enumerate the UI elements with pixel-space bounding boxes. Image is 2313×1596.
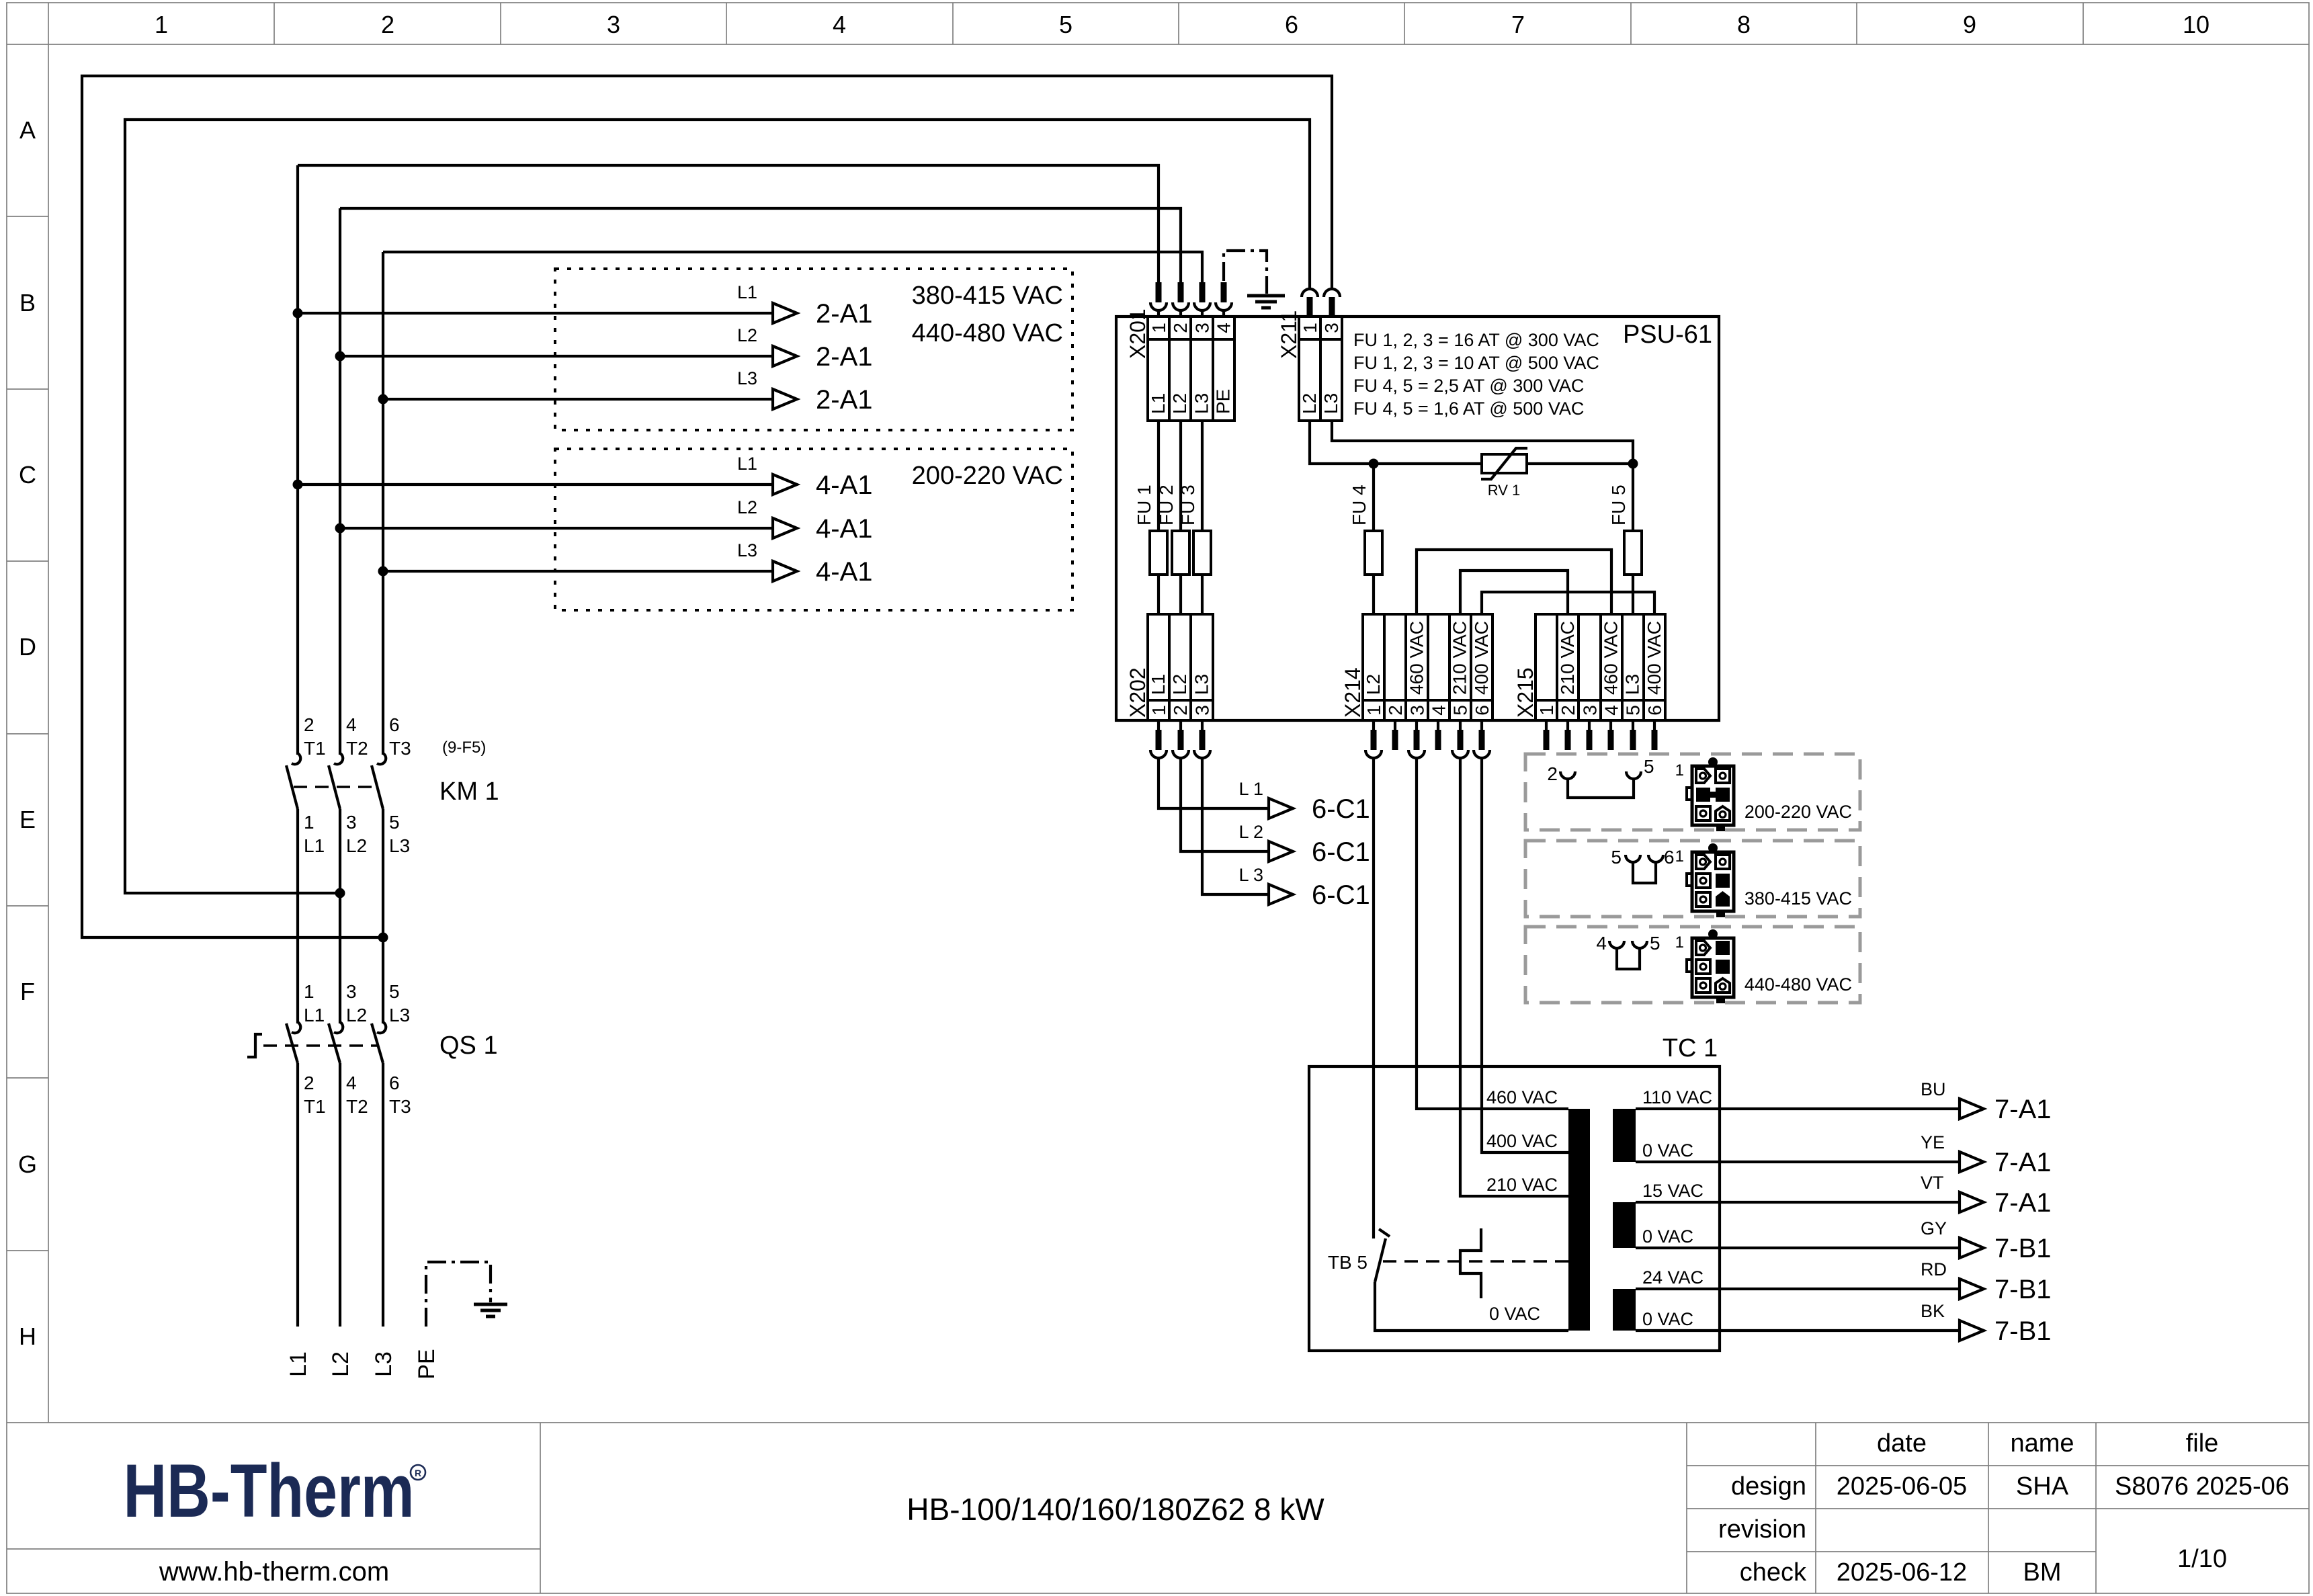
svg-text:L3: L3 bbox=[1191, 674, 1212, 695]
svg-text:460 VAC: 460 VAC bbox=[1486, 1087, 1558, 1107]
svg-text:1: 1 bbox=[1148, 323, 1169, 333]
dotted box 380-415/440-480 VAC bbox=[555, 269, 1073, 430]
disconnect switch QS1 bbox=[247, 1022, 386, 1063]
link arrow 4-A1 (L1) bbox=[773, 474, 797, 495]
ground (bottom PE) bbox=[474, 1304, 507, 1316]
svg-text:X201: X201 bbox=[1126, 308, 1150, 359]
pin into X201 at x=1724 bbox=[1156, 282, 1162, 302]
pin below X215 at x=2333 bbox=[1566, 720, 1569, 730]
wire X201 to X202 (FU 1) bbox=[1157, 421, 1160, 614]
connector X202 bbox=[1148, 614, 1213, 720]
svg-text:2: 2 bbox=[381, 11, 394, 38]
svg-text:200-220 VAC: 200-220 VAC bbox=[1744, 802, 1852, 822]
QS1 labels bbox=[304, 981, 411, 1117]
svg-text:T1: T1 bbox=[304, 1096, 326, 1117]
svg-text:1: 1 bbox=[1148, 705, 1169, 716]
svg-text:(9-F5): (9-F5) bbox=[442, 739, 486, 757]
svg-text:L1: L1 bbox=[304, 1005, 325, 1025]
wire L1 rail bbox=[296, 165, 299, 1327]
title table texts bbox=[1718, 1429, 2289, 1587]
svg-text:BU: BU bbox=[1921, 1079, 1946, 1099]
svg-text:T3: T3 bbox=[389, 1096, 411, 1117]
svg-text:2: 2 bbox=[1385, 705, 1406, 716]
fuse FU5 bbox=[1632, 464, 1634, 614]
svg-text:VT: VT bbox=[1921, 1173, 1944, 1193]
wire L3 rail bbox=[382, 252, 384, 1327]
svg-text:6: 6 bbox=[1285, 11, 1298, 38]
wire L3 tap to 4-A1 bbox=[383, 570, 773, 573]
wire 460 VAC bus X214-3 to X215-4 bbox=[1417, 550, 1611, 614]
svg-text:3: 3 bbox=[607, 11, 620, 38]
connector X211 bbox=[1299, 317, 1342, 421]
svg-text:L 1: L 1 bbox=[1238, 779, 1263, 799]
wire L1 loop to X201-1 bbox=[298, 165, 1159, 282]
svg-text:X215: X215 bbox=[1513, 667, 1538, 718]
svg-text:6-C1: 6-C1 bbox=[1312, 794, 1370, 824]
HB-Therm logo bbox=[123, 1450, 425, 1534]
node FU5 junction bbox=[1628, 459, 1638, 469]
svg-text:380-415 VAC: 380-415 VAC bbox=[1744, 888, 1852, 909]
svg-text:7-B1: 7-B1 bbox=[1994, 1316, 2052, 1346]
svg-text:2025-06-05: 2025-06-05 bbox=[1837, 1472, 1967, 1501]
svg-text:5: 5 bbox=[1450, 705, 1471, 716]
wire 210 VAC bus X214-5 to X215-2 bbox=[1460, 571, 1568, 614]
fuse FU 3 bbox=[1193, 531, 1211, 575]
svg-text:2-A1: 2-A1 bbox=[816, 342, 873, 372]
svg-text:1: 1 bbox=[1536, 705, 1557, 716]
node L3 junction bbox=[378, 566, 388, 577]
wire X202 to 6-C1 (L 3) bbox=[1202, 758, 1269, 894]
svg-text:X214: X214 bbox=[1341, 667, 1365, 718]
pin below X215 at x=2397 bbox=[1609, 720, 1612, 730]
svg-text:FU 4, 5 = 1,6 AT @ 500 VAC: FU 4, 5 = 1,6 AT @ 500 VAC bbox=[1353, 398, 1584, 419]
wire L1 tap to 2-A1 bbox=[298, 312, 773, 314]
node L1 junction bbox=[293, 480, 303, 490]
svg-text:file: file bbox=[2186, 1429, 2219, 1458]
svg-text:TC 1: TC 1 bbox=[1663, 1034, 1718, 1062]
svg-text:6: 6 bbox=[1644, 705, 1665, 716]
svg-text:460 VAC: 460 VAC bbox=[1601, 621, 1622, 695]
contactor KM1 bbox=[286, 753, 386, 809]
wire L2 from X211-1 to FU4 node bbox=[1310, 421, 1374, 464]
svg-text:SHA: SHA bbox=[2016, 1472, 2069, 1501]
svg-text:2-A1: 2-A1 bbox=[816, 299, 873, 329]
row letters A-H bbox=[18, 116, 37, 1350]
svg-text:HB-100/140/160/180Z62 8 kW: HB-100/140/160/180Z62 8 kW bbox=[907, 1492, 1324, 1527]
svg-text:7-A1: 7-A1 bbox=[1994, 1188, 2052, 1218]
svg-text:2: 2 bbox=[304, 714, 314, 735]
jumper 2-5 (200-220 VAC) bbox=[1547, 756, 1654, 798]
link arrow 7-B1 (BK) bbox=[1960, 1320, 1984, 1341]
svg-text:L3: L3 bbox=[737, 540, 757, 560]
svg-text:15 VAC: 15 VAC bbox=[1642, 1181, 1704, 1201]
connector X215 bbox=[1536, 614, 1665, 720]
pin/socket below X202 at x=1789 bbox=[1201, 720, 1204, 730]
svg-text:4-A1: 4-A1 bbox=[816, 557, 873, 587]
svg-text:www.hb-therm.com: www.hb-therm.com bbox=[159, 1557, 389, 1587]
svg-text:PE: PE bbox=[1213, 389, 1234, 414]
wire RD to 7-B1 bbox=[1636, 1288, 1960, 1290]
svg-text:2: 2 bbox=[1558, 705, 1579, 716]
svg-text:1: 1 bbox=[304, 812, 314, 833]
svg-text:R: R bbox=[415, 1468, 421, 1478]
pin below X214 at x=2140 bbox=[1437, 720, 1439, 730]
option box 200-220 VAC bbox=[1525, 754, 1860, 830]
svg-text:L3: L3 bbox=[1320, 393, 1341, 414]
svg-text:B: B bbox=[19, 289, 36, 317]
svg-text:E: E bbox=[19, 806, 36, 833]
fuse FU4 bbox=[1372, 464, 1375, 614]
link arrow 2-A1 (L3) bbox=[773, 389, 797, 409]
svg-text:3: 3 bbox=[1579, 705, 1600, 716]
PSU-61 power supply unit bbox=[1116, 317, 1719, 720]
svg-text:X211: X211 bbox=[1277, 310, 1301, 359]
pin below X215 at x=2430 bbox=[1632, 720, 1634, 730]
node L1 junction bbox=[293, 308, 303, 319]
svg-text:8: 8 bbox=[1737, 11, 1751, 38]
svg-text:FU 3: FU 3 bbox=[1177, 485, 1198, 526]
svg-text:2: 2 bbox=[1547, 763, 1558, 784]
column numbers 1-10 bbox=[155, 11, 2210, 38]
svg-text:4-A1: 4-A1 bbox=[816, 514, 873, 544]
wire RV1 link bbox=[1374, 462, 1633, 465]
svg-text:PE: PE bbox=[414, 1349, 439, 1379]
svg-text:110 VAC: 110 VAC bbox=[1642, 1087, 1712, 1107]
svg-text:RD: RD bbox=[1921, 1259, 1947, 1279]
svg-text:L1: L1 bbox=[1148, 393, 1169, 414]
svg-text:date: date bbox=[1877, 1429, 1927, 1458]
svg-text:7-B1: 7-B1 bbox=[1994, 1275, 2052, 1304]
link arrow 7-B1 (GY) bbox=[1960, 1238, 1984, 1258]
svg-text:3: 3 bbox=[346, 981, 357, 1002]
svg-text:3: 3 bbox=[1321, 323, 1342, 333]
svg-text:FU 1, 2, 3 = 16 AT @ 300 VAC: FU 1, 2, 3 = 16 AT @ 300 VAC bbox=[1353, 330, 1599, 350]
pin below X214 at x=2044 bbox=[1372, 720, 1375, 730]
svg-text:L2: L2 bbox=[328, 1351, 353, 1377]
svg-text:FU 1, 2, 3 = 10 AT @ 500 VAC: FU 1, 2, 3 = 10 AT @ 500 VAC bbox=[1353, 353, 1599, 373]
svg-text:BM: BM bbox=[2023, 1558, 2062, 1587]
node L3 tap junction (QS side) bbox=[378, 933, 388, 943]
svg-text:6: 6 bbox=[1664, 847, 1675, 868]
connector X201 bbox=[1148, 317, 1234, 421]
svg-text:3: 3 bbox=[1406, 705, 1427, 716]
wire BU to 7-A1 bbox=[1636, 1107, 1960, 1110]
wire L2 rail bbox=[339, 208, 341, 1327]
svg-text:2-A1: 2-A1 bbox=[816, 385, 873, 415]
wire BK to 7-B1 bbox=[1636, 1329, 1960, 1332]
link arrow 7-A1 (BU) bbox=[1960, 1099, 1984, 1119]
ground (PSU PE) bbox=[1247, 296, 1285, 308]
thermal contact TB5 bbox=[1328, 1066, 1568, 1331]
svg-text:6: 6 bbox=[389, 1073, 400, 1093]
svg-text:200-220 VAC: 200-220 VAC bbox=[912, 462, 1063, 490]
svg-text:0 VAC: 0 VAC bbox=[1642, 1309, 1693, 1329]
link arrow 7-A1 (YE) bbox=[1960, 1152, 1984, 1172]
svg-text:L3: L3 bbox=[737, 368, 757, 388]
svg-text:2: 2 bbox=[1170, 705, 1191, 716]
svg-text:X202: X202 bbox=[1126, 667, 1150, 718]
node L2 tap junction (QS side) bbox=[335, 888, 345, 898]
svg-text:7-A1: 7-A1 bbox=[1994, 1095, 2052, 1124]
link arrow 4-A1 (L3) bbox=[773, 561, 797, 581]
wire VT to 7-A1 bbox=[1636, 1201, 1960, 1204]
wire L2 tap to 2-A1 bbox=[340, 355, 773, 358]
svg-text:L3: L3 bbox=[389, 835, 410, 856]
svg-text:TB 5: TB 5 bbox=[1328, 1252, 1368, 1273]
svg-text:H: H bbox=[19, 1322, 36, 1350]
svg-text:6: 6 bbox=[389, 714, 400, 735]
fuse rating table bbox=[1353, 330, 1599, 419]
link arrow 6-C1 (L 3) bbox=[1269, 884, 1293, 905]
svg-text:1: 1 bbox=[1675, 933, 1684, 952]
pin below X214 at x=2076 bbox=[1394, 720, 1396, 730]
svg-text:KM 1: KM 1 bbox=[439, 778, 499, 806]
svg-text:2: 2 bbox=[304, 1073, 314, 1093]
svg-text:L3: L3 bbox=[389, 1005, 410, 1025]
svg-text:5: 5 bbox=[389, 812, 400, 833]
fuse FU 2 bbox=[1172, 531, 1189, 575]
svg-text:RV 1: RV 1 bbox=[1488, 482, 1521, 499]
svg-text:design: design bbox=[1731, 1472, 1806, 1501]
svg-text:3: 3 bbox=[346, 812, 357, 833]
svg-text:210 VAC: 210 VAC bbox=[1557, 621, 1578, 695]
svg-text:D: D bbox=[19, 633, 36, 661]
link arrow 2-A1 (L2) bbox=[773, 346, 797, 366]
svg-text:4: 4 bbox=[833, 11, 846, 38]
TC1 secondary tap labels bbox=[1642, 1087, 1712, 1329]
svg-text:T1: T1 bbox=[304, 738, 326, 759]
svg-text:BK: BK bbox=[1921, 1301, 1945, 1321]
svg-text:L2: L2 bbox=[1169, 674, 1190, 695]
svg-text:L2: L2 bbox=[1299, 393, 1320, 414]
svg-text:1: 1 bbox=[155, 11, 168, 38]
svg-text:FU 4: FU 4 bbox=[1349, 485, 1370, 526]
wire 210 VAC X214-5 to TC1 bbox=[1460, 758, 1568, 1196]
wire L3 from X211-3 to FU5 node bbox=[1332, 421, 1633, 464]
svg-text:1: 1 bbox=[1363, 705, 1384, 716]
svg-text:3: 3 bbox=[1191, 705, 1212, 716]
svg-text:GY: GY bbox=[1921, 1218, 1947, 1238]
link arrow 6-C1 (L 2) bbox=[1269, 841, 1293, 862]
svg-text:T2: T2 bbox=[346, 738, 368, 759]
pin/socket below X202 at x=1757 bbox=[1179, 720, 1182, 730]
node L2 junction bbox=[335, 351, 345, 362]
svg-text:C: C bbox=[19, 461, 36, 489]
svg-text:400 VAC: 400 VAC bbox=[1471, 621, 1492, 695]
svg-text:7-A1: 7-A1 bbox=[1994, 1148, 2052, 1177]
svg-text:6-C1: 6-C1 bbox=[1312, 837, 1370, 867]
pin into X201 at x=1757 bbox=[1178, 282, 1184, 302]
svg-text:L1: L1 bbox=[286, 1351, 311, 1377]
svg-text:4: 4 bbox=[346, 714, 357, 735]
svg-text:L2: L2 bbox=[1169, 393, 1190, 414]
pin X201-4 PE bbox=[1221, 282, 1227, 302]
wire L2 tap to 4-A1 bbox=[340, 527, 773, 530]
link arrow 2-A1 (L1) bbox=[773, 303, 797, 323]
svg-text:L 3: L 3 bbox=[1238, 865, 1263, 885]
svg-text:210 VAC: 210 VAC bbox=[1486, 1175, 1558, 1195]
node L2 junction bbox=[335, 523, 345, 534]
transformer TC1 secondary windings bbox=[1613, 1109, 1636, 1162]
svg-text:6-C1: 6-C1 bbox=[1312, 880, 1370, 910]
wire L3 feed loop to X211-3 bbox=[82, 76, 1332, 937]
wire L1 tap to 4-A1 bbox=[298, 483, 773, 486]
wire 460 VAC X214-3 to TC1 bbox=[1417, 758, 1568, 1109]
link arrow 4-A1 (L2) bbox=[773, 518, 797, 538]
pin below X215 at x=2301 bbox=[1545, 720, 1548, 730]
svg-text:380-415 VAC: 380-415 VAC bbox=[912, 282, 1063, 310]
title block frame bbox=[7, 1423, 2309, 1593]
svg-text:5: 5 bbox=[1650, 933, 1660, 954]
svg-text:4: 4 bbox=[1429, 705, 1449, 716]
svg-text:10: 10 bbox=[2183, 11, 2210, 38]
pin/socket below X202 at x=1724 bbox=[1157, 720, 1160, 730]
wire PE (dash-dot) bbox=[426, 1262, 491, 1327]
TC1 primary tap labels bbox=[1486, 1087, 1558, 1324]
fuse FU 1 bbox=[1150, 531, 1167, 575]
svg-text:4: 4 bbox=[1214, 323, 1234, 333]
socket/pin into X211 at x=1949 bbox=[1302, 289, 1318, 297]
svg-text:F: F bbox=[20, 978, 35, 1005]
svg-text:440-480 VAC: 440-480 VAC bbox=[912, 319, 1063, 347]
option box 440-480 VAC bbox=[1525, 927, 1860, 1003]
svg-text:0 VAC: 0 VAC bbox=[1642, 1140, 1693, 1161]
svg-text:L3: L3 bbox=[1622, 674, 1643, 695]
svg-text:L1: L1 bbox=[737, 282, 757, 302]
svg-text:5: 5 bbox=[389, 981, 400, 1002]
jumper 4-5 (440-480 VAC) bbox=[1596, 933, 1660, 969]
svg-text:5: 5 bbox=[1623, 705, 1644, 716]
svg-text:S8076 2025-06: S8076 2025-06 bbox=[2115, 1472, 2289, 1501]
svg-text:5: 5 bbox=[1644, 756, 1654, 777]
KM1 labels bbox=[304, 714, 411, 856]
svg-text:FU 1: FU 1 bbox=[1134, 485, 1154, 526]
svg-text:7: 7 bbox=[1511, 11, 1525, 38]
transformer TC1 primary winding bbox=[1568, 1109, 1590, 1331]
svg-text:FU 2: FU 2 bbox=[1156, 485, 1177, 526]
svg-text:L1: L1 bbox=[1148, 674, 1169, 695]
pin below X214 at x=2108 bbox=[1415, 720, 1418, 730]
svg-text:1: 1 bbox=[1675, 847, 1684, 866]
svg-text:check: check bbox=[1740, 1558, 1807, 1587]
wire X202 to 6-C1 (L 1) bbox=[1159, 758, 1269, 808]
wire L3 loop to X201-3 bbox=[383, 252, 1202, 282]
svg-text:L3: L3 bbox=[371, 1351, 396, 1377]
wire GY to 7-B1 bbox=[1636, 1247, 1960, 1249]
pin below X214 at x=2173 bbox=[1459, 720, 1462, 730]
svg-text:1/10: 1/10 bbox=[2177, 1545, 2227, 1573]
wire X201 to X202 (FU 3) bbox=[1201, 421, 1204, 614]
connector X214 bbox=[1363, 614, 1492, 720]
svg-text:4: 4 bbox=[1596, 933, 1607, 954]
svg-text:L 2: L 2 bbox=[1238, 822, 1263, 842]
svg-text:name: name bbox=[2010, 1429, 2074, 1458]
svg-text:L1: L1 bbox=[737, 454, 757, 474]
svg-text:2025-06-12: 2025-06-12 bbox=[1837, 1558, 1967, 1587]
wire 400 VAC X214-6 to TC1 bbox=[1482, 758, 1568, 1152]
wire L3 tap to 2-A1 bbox=[383, 398, 773, 401]
svg-text:4: 4 bbox=[1601, 705, 1622, 716]
svg-text:L2: L2 bbox=[737, 325, 757, 345]
wire L2 loop to X201-2 bbox=[340, 208, 1181, 282]
svg-text:1: 1 bbox=[1300, 323, 1320, 333]
svg-text:7-B1: 7-B1 bbox=[1994, 1234, 2052, 1263]
svg-text:0 VAC: 0 VAC bbox=[1489, 1304, 1540, 1324]
wire L2 X214-1 to TB5 bbox=[1372, 758, 1375, 1066]
wire 400 VAC bus X214-6 to X215-6 bbox=[1482, 592, 1654, 614]
svg-text:L2: L2 bbox=[737, 497, 757, 517]
svg-text:24 VAC: 24 VAC bbox=[1642, 1267, 1704, 1288]
wire L2 feed loop to X211-1 bbox=[125, 120, 1310, 893]
svg-text:HB-Therm: HB-Therm bbox=[123, 1450, 414, 1534]
svg-text:FU 4, 5 = 2,5 AT @ 300 VAC: FU 4, 5 = 2,5 AT @ 300 VAC bbox=[1353, 376, 1584, 396]
svg-text:PSU-61: PSU-61 bbox=[1623, 321, 1712, 349]
svg-text:QS 1: QS 1 bbox=[439, 1032, 498, 1060]
svg-text:440-480 VAC: 440-480 VAC bbox=[1744, 974, 1852, 995]
svg-text:A: A bbox=[19, 116, 36, 144]
svg-text:L3: L3 bbox=[1191, 393, 1212, 414]
link arrow 6-C1 (L 1) bbox=[1269, 798, 1293, 818]
svg-text:FU 5: FU 5 bbox=[1608, 485, 1629, 526]
svg-text:2: 2 bbox=[1170, 323, 1191, 333]
node FU4 junction bbox=[1369, 459, 1379, 469]
link arrow 7-A1 (VT) bbox=[1960, 1192, 1984, 1212]
svg-text:1: 1 bbox=[304, 981, 314, 1002]
svg-text:4: 4 bbox=[346, 1073, 357, 1093]
svg-text:400 VAC: 400 VAC bbox=[1644, 621, 1665, 695]
link arrow 7-B1 (RD) bbox=[1960, 1279, 1984, 1299]
svg-text:1: 1 bbox=[1675, 761, 1684, 780]
svg-text:T2: T2 bbox=[346, 1096, 368, 1117]
svg-text:L2: L2 bbox=[1363, 674, 1384, 695]
pin below X215 at x=2462 bbox=[1653, 720, 1656, 730]
node L3 junction bbox=[378, 394, 388, 405]
option box 380-415 VAC bbox=[1525, 841, 1860, 917]
svg-text:6: 6 bbox=[1472, 705, 1492, 716]
svg-text:5: 5 bbox=[1611, 847, 1622, 868]
svg-text:YE: YE bbox=[1921, 1132, 1945, 1152]
svg-text:210 VAC: 210 VAC bbox=[1449, 621, 1470, 695]
pin below X214 at x=2205 bbox=[1480, 720, 1483, 730]
pin below X215 at x=2365 bbox=[1588, 720, 1591, 730]
svg-text:3: 3 bbox=[1191, 323, 1212, 333]
wire X201 to X202 (FU 2) bbox=[1179, 421, 1182, 614]
svg-text:4-A1: 4-A1 bbox=[816, 470, 873, 500]
socket/pin into X211 at x=1982 bbox=[1324, 289, 1340, 297]
wire YE to 7-A1 bbox=[1636, 1161, 1960, 1163]
dotted box 200-220 VAC bbox=[555, 449, 1073, 610]
svg-text:9: 9 bbox=[1963, 11, 1976, 38]
svg-text:460 VAC: 460 VAC bbox=[1406, 621, 1427, 695]
svg-text:400 VAC: 400 VAC bbox=[1486, 1131, 1558, 1151]
svg-text:revision: revision bbox=[1718, 1515, 1806, 1544]
wire PE (top, dash-dot) bbox=[1224, 251, 1267, 294]
svg-text:L1: L1 bbox=[304, 835, 325, 856]
svg-text:5: 5 bbox=[1059, 11, 1073, 38]
svg-text:G: G bbox=[18, 1150, 37, 1178]
varistor RV1 bbox=[1482, 454, 1527, 473]
jumper 5-6 (380-415 VAC) bbox=[1611, 847, 1674, 883]
svg-text:T3: T3 bbox=[389, 738, 411, 759]
transformer TC1 box bbox=[1309, 1066, 1720, 1351]
pin into X201 at x=1789 bbox=[1200, 282, 1206, 302]
svg-text:L2: L2 bbox=[346, 1005, 367, 1025]
svg-text:0 VAC: 0 VAC bbox=[1642, 1226, 1693, 1247]
svg-text:L2: L2 bbox=[346, 835, 367, 856]
wire X202 to 6-C1 (L 2) bbox=[1181, 758, 1269, 851]
